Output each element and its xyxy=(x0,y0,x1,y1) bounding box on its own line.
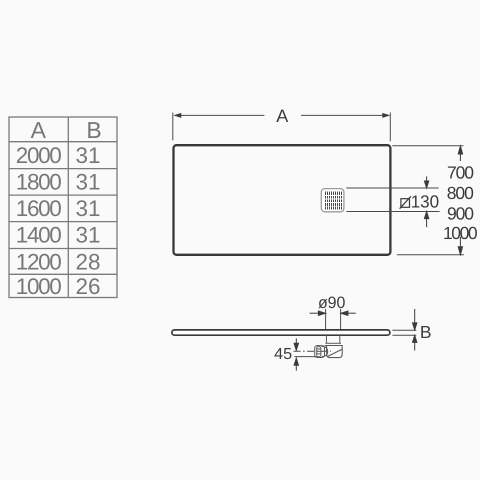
svg-text:31: 31 xyxy=(76,196,101,221)
svg-text:1400: 1400 xyxy=(16,223,62,248)
dim 130 extension lines xyxy=(346,188,439,212)
svg-text:31: 31 xyxy=(76,223,101,248)
trap bottom extension line xyxy=(294,356,317,358)
svg-text:B: B xyxy=(420,322,432,342)
svg-text:31: 31 xyxy=(76,170,101,195)
dim 45 arrows xyxy=(294,338,298,370)
svg-text:A: A xyxy=(276,106,288,126)
svg-text:900: 900 xyxy=(447,204,474,224)
svg-text:A: A xyxy=(31,117,47,143)
dim B arrows xyxy=(413,309,417,351)
svg-text:1000: 1000 xyxy=(443,223,478,243)
trap centerline dash-dot xyxy=(294,350,331,352)
svg-text:28: 28 xyxy=(76,249,101,274)
right dim arrows xyxy=(458,146,462,255)
square symbol of 130 xyxy=(400,196,411,208)
svg-text:800: 800 xyxy=(447,183,474,203)
dim A dimension line xyxy=(181,114,382,116)
svg-text:130: 130 xyxy=(411,192,440,212)
svg-text:B: B xyxy=(86,117,101,143)
trap collar xyxy=(325,342,341,344)
right dim labels 700 800 900 1000 xyxy=(443,163,478,244)
svg-text:45: 45 xyxy=(274,346,292,363)
table header A B xyxy=(31,117,102,143)
trap drain pipe xyxy=(326,336,339,344)
dim o90 arrows xyxy=(310,311,356,315)
table grid xyxy=(9,117,117,298)
svg-text:2000: 2000 xyxy=(16,143,62,168)
top view tray rectangle xyxy=(174,145,391,255)
dim B extension lines xyxy=(392,330,416,335)
trap nut xyxy=(315,346,328,358)
svg-text:26: 26 xyxy=(76,274,101,299)
drain grate xyxy=(321,189,344,212)
side view tray profile xyxy=(172,330,390,335)
svg-text:1200: 1200 xyxy=(16,249,62,274)
table values xyxy=(16,143,101,299)
svg-text:700: 700 xyxy=(447,163,474,183)
dim o90 extension lines xyxy=(326,309,341,329)
right dim extension lines xyxy=(392,146,464,255)
svg-text:31: 31 xyxy=(76,143,101,168)
svg-text:1800: 1800 xyxy=(16,170,62,195)
trap body xyxy=(325,346,343,358)
svg-text:1600: 1600 xyxy=(16,196,62,221)
dim A arrowheads xyxy=(173,113,390,118)
dim A extension lines xyxy=(173,113,390,142)
svg-text:ø90: ø90 xyxy=(318,294,346,312)
dim 130 arrows xyxy=(424,176,428,227)
svg-text:1000: 1000 xyxy=(16,274,62,299)
